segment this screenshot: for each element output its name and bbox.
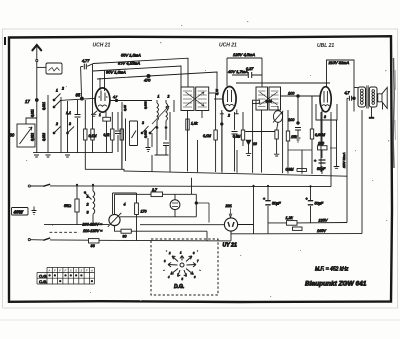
svg-text:A: A <box>90 268 93 272</box>
svg-text:1: 1 <box>56 89 58 93</box>
svg-text:470: 470 <box>144 79 151 83</box>
svg-text:17: 17 <box>25 99 30 104</box>
svg-text:UCH 21: UCH 21 <box>93 43 111 49</box>
svg-text:0,022: 0,022 <box>42 133 46 141</box>
svg-text:D.G.: D.G. <box>174 284 184 290</box>
svg-text:0,002: 0,002 <box>143 130 147 138</box>
svg-text:0,1M: 0,1M <box>203 134 211 138</box>
svg-text:55V 1,5mA: 55V 1,5mA <box>121 53 141 58</box>
svg-text:0,021: 0,021 <box>42 102 46 110</box>
svg-text:0,1M: 0,1M <box>89 134 97 138</box>
svg-text:40W: 40W <box>13 209 24 214</box>
svg-text:0,8M: 0,8M <box>233 135 241 139</box>
svg-text:10: 10 <box>253 142 257 146</box>
svg-text:1: 1 <box>87 195 89 199</box>
svg-text:2: 2 <box>61 87 64 91</box>
svg-text:F: F <box>54 268 56 272</box>
svg-text:221: 221 <box>225 204 232 208</box>
svg-text:4,7: 4,7 <box>113 95 118 99</box>
svg-text:2: 2 <box>55 122 58 126</box>
svg-text:2,7: 2,7 <box>151 188 158 192</box>
svg-text:S: S <box>80 268 82 272</box>
svg-text:3: 3 <box>142 121 144 125</box>
svg-text:A: A <box>47 268 50 272</box>
svg-text:30: 30 <box>10 133 15 138</box>
svg-text:100: 100 <box>288 118 295 122</box>
svg-text:3: 3 <box>324 115 326 119</box>
svg-text:4: 4 <box>124 203 126 207</box>
svg-text:UCH 21: UCH 21 <box>219 43 237 49</box>
svg-text:S: S <box>75 268 77 272</box>
svg-text:C.G.: C.G. <box>39 279 47 284</box>
svg-text:1: 1 <box>99 113 101 117</box>
svg-text:2: 2 <box>227 114 230 118</box>
svg-text:1,2k: 1,2k <box>286 216 294 220</box>
svg-text:F: F <box>65 268 67 272</box>
svg-text:1: 1 <box>158 95 160 99</box>
svg-text:90: 90 <box>123 235 127 239</box>
svg-text:M.F. = 452 kHz: M.F. = 452 kHz <box>315 267 349 273</box>
svg-text:UY 21: UY 21 <box>223 243 237 249</box>
svg-text:0,011: 0,011 <box>31 109 35 117</box>
svg-text:UBL 21: UBL 21 <box>317 43 334 49</box>
svg-text:100: 100 <box>288 92 295 96</box>
svg-text:50μF: 50μF <box>272 202 281 206</box>
svg-text:0,27: 0,27 <box>246 67 254 71</box>
svg-text:135V: 135V <box>319 219 328 223</box>
svg-text:F: F <box>86 268 88 272</box>
svg-text:85V 4,15mA: 85V 4,15mA <box>118 61 140 66</box>
svg-text:115V 32mA: 115V 32mA <box>342 153 346 168</box>
svg-text:0,05: 0,05 <box>123 105 127 111</box>
svg-text:125V 4,5mA: 125V 4,5mA <box>233 52 255 57</box>
svg-text:3,75: 3,75 <box>215 89 219 95</box>
svg-text:0,1k: 0,1k <box>104 133 110 137</box>
svg-text:2: 2 <box>167 95 170 99</box>
svg-text:S: S <box>70 268 72 272</box>
svg-text:1,8k: 1,8k <box>191 122 198 126</box>
svg-text:170: 170 <box>141 210 147 214</box>
svg-text:0,022: 0,022 <box>31 133 35 141</box>
svg-text:55Ω: 55Ω <box>64 204 71 208</box>
svg-text:110-125V ≈: 110-125V ≈ <box>83 229 103 233</box>
svg-text:165V: 165V <box>317 229 326 233</box>
svg-text:O.G.: O.G. <box>39 273 47 278</box>
svg-text:0,8M: 0,8M <box>286 168 294 172</box>
svg-text:3: 3 <box>69 122 71 126</box>
svg-text:F: F <box>59 268 61 272</box>
svg-text:0,003: 0,003 <box>143 101 147 109</box>
svg-text:1,1: 1,1 <box>66 111 71 115</box>
svg-text:0,85M: 0,85M <box>315 133 325 137</box>
svg-text:90V 1,5mA: 90V 1,5mA <box>106 70 126 75</box>
svg-text:50μF: 50μF <box>315 202 324 206</box>
svg-text:50μF: 50μF <box>317 167 326 171</box>
svg-text:Blaupunkt ZGW 641: Blaupunkt ZGW 641 <box>305 280 367 287</box>
svg-text:15k: 15k <box>291 135 297 139</box>
svg-text:110V 32mA: 110V 32mA <box>329 60 350 65</box>
svg-text:200-220V ≈: 200-220V ≈ <box>82 223 104 227</box>
svg-text:4,77: 4,77 <box>82 59 90 63</box>
svg-text:65: 65 <box>76 92 81 97</box>
